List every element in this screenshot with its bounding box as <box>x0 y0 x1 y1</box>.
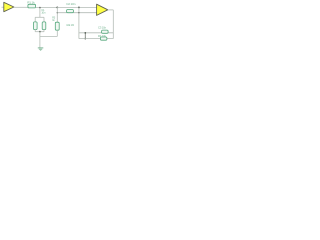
svg-text:R1 1k: R1 1k <box>27 0 35 4</box>
junction node C2 small dot on inverting line <box>57 12 58 13</box>
wire feedback lower branch <box>79 38 113 40</box>
wire node C down segment <box>56 7 58 22</box>
junction node F dot (lower branch) <box>84 38 86 40</box>
capacitor C3 (upper feedback branch) <box>102 30 109 33</box>
wire R1 to node A <box>36 6 58 8</box>
wire U2 output <box>108 9 114 11</box>
wire ground branch horizontal <box>40 35 57 37</box>
wire connector between feedback branches <box>84 33 86 39</box>
wire U1 output to R1 <box>14 6 28 8</box>
wire node A down to T split <box>39 8 41 18</box>
ground <box>38 48 44 50</box>
op-amp U2 <box>97 4 108 15</box>
label C1 10n at node A branch <box>41 9 46 14</box>
wire branches rejoin <box>35 31 44 33</box>
resistor R4 (lower feedback branch) <box>100 37 107 40</box>
wire T split horizontal <box>35 16 44 18</box>
junction node D2 small dot <box>78 12 79 13</box>
wire inverting input line <box>57 12 96 14</box>
svg-text:10k 1%: 10k 1% <box>66 24 75 27</box>
wire node B down to ground <box>39 32 41 48</box>
wire right branch upper <box>43 17 45 22</box>
wire left branch upper <box>34 17 36 22</box>
junction node C dot (main wire) <box>56 6 58 8</box>
wire R3 bottom to ground branch <box>56 30 58 36</box>
value label C3 10n <box>98 26 107 30</box>
svg-text:10n: 10n <box>41 11 46 14</box>
label R3 <box>52 17 56 23</box>
capacitor C1 (left vertical branch) <box>34 22 38 30</box>
wire right branch lower <box>43 30 45 32</box>
resistor R3 (vertical, below node C) <box>55 22 59 30</box>
junction node A dot <box>39 7 41 9</box>
value label R1 1k <box>27 0 35 4</box>
value label C2 10n <box>66 2 76 6</box>
junction node B dot <box>39 31 41 33</box>
capacitor C2 (on inverting line) <box>67 10 74 13</box>
op-amp U1 (input buffer triangle) <box>4 2 14 11</box>
wire main node C to op-amp U2 <box>57 6 96 8</box>
svg-text:C2 10n: C2 10n <box>66 2 76 6</box>
wire feedback upper branch <box>79 32 113 34</box>
wire left branch lower <box>34 30 36 32</box>
wire node D down to feedback <box>78 7 80 38</box>
junction node D dot (main wire) <box>78 6 80 8</box>
value label R4 10k <box>98 34 107 38</box>
wire feedback right vertical <box>112 10 114 39</box>
junction node E dot (upper branch) <box>84 32 86 34</box>
resistor R1 <box>28 4 36 8</box>
svg-text:C3 10n: C3 10n <box>98 26 107 30</box>
wire input stub to U1 <box>2 6 4 8</box>
value label R3 10k <box>66 24 75 27</box>
resistor R2 (right vertical branch) <box>42 22 46 30</box>
